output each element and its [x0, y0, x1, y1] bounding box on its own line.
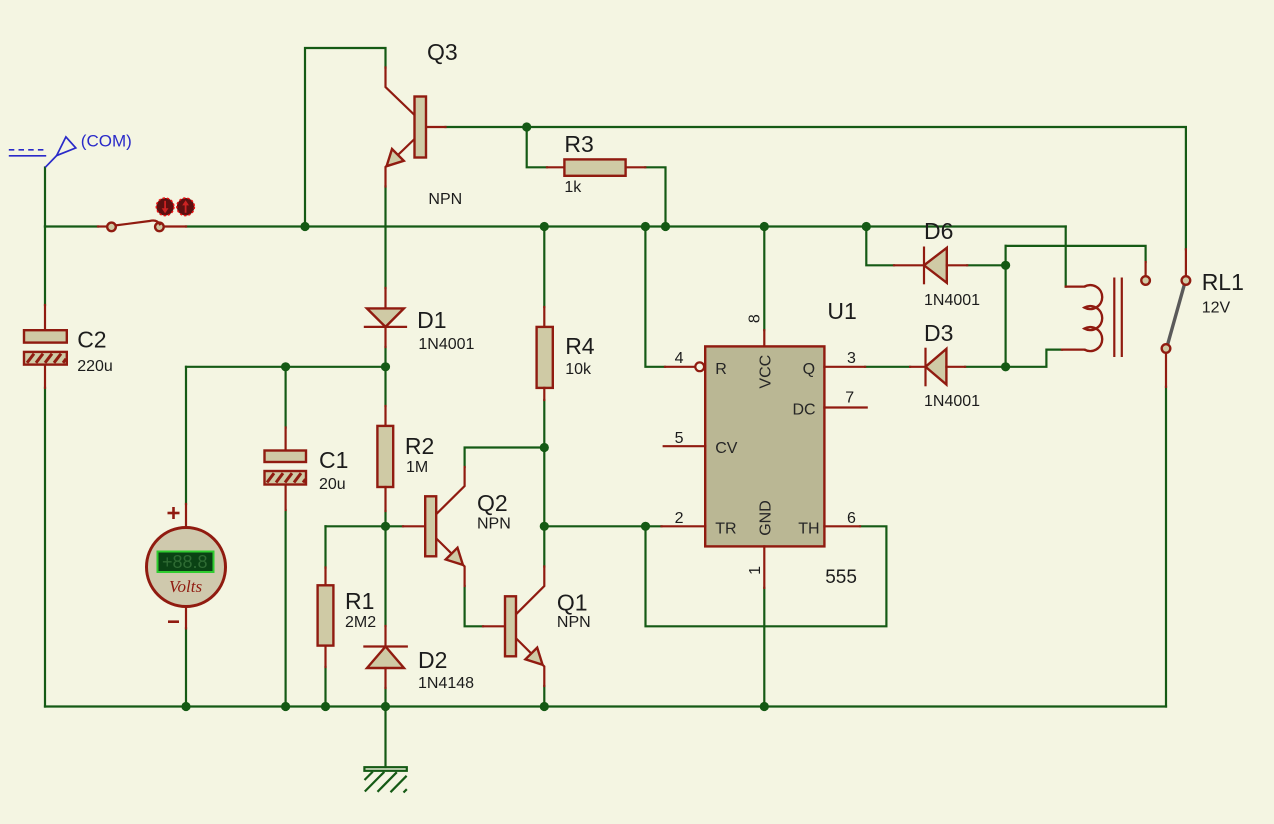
diode D1 lead top [384, 288, 386, 308]
resistor R2 lead top [384, 406, 386, 426]
svg-text:VCC: VCC [757, 355, 774, 389]
relay RL1 coil arcs [1084, 285, 1102, 351]
switch SW terminal right [155, 223, 164, 232]
IC U1 555 body [705, 346, 824, 546]
resistor R3 body [564, 159, 625, 175]
voltmeter body [147, 528, 226, 607]
junction D6 bus [862, 222, 871, 231]
svg-text:R1: R1 [345, 588, 374, 614]
voltmeter lead top [185, 504, 187, 528]
junction C1 bus [281, 702, 290, 711]
relay RL1 contact terminal right [1182, 276, 1191, 285]
resistor R3 lead left [547, 166, 564, 168]
capacitor C2 plate top [24, 330, 67, 342]
svg-text:GND: GND [757, 500, 774, 536]
wire voltmeter bottom [185, 628, 187, 706]
wire ground drop [384, 707, 386, 768]
svg-text:NPN: NPN [557, 614, 591, 631]
resistor R3 lead right [626, 166, 646, 168]
switch SW blade [116, 221, 160, 226]
svg-text:D6: D6 [924, 218, 953, 244]
junction Q3 collector bus [300, 222, 309, 231]
wire bottom bus [45, 705, 1166, 707]
relay RL1 contact terminal left [1141, 276, 1150, 285]
svg-text:Q1: Q1 [557, 590, 588, 616]
svg-text:TH: TH [798, 520, 819, 537]
pin 1 lead [763, 546, 765, 588]
svg-text:NPN: NPN [477, 516, 511, 533]
svg-text:4: 4 [675, 350, 684, 367]
junction voltmeter bus [181, 702, 190, 711]
switch SW terminal left [107, 223, 116, 232]
diode D6 lead left [894, 264, 924, 266]
wire R2 bottom [384, 511, 386, 526]
svg-text:CV: CV [715, 440, 738, 457]
diode D6 cathode bar [923, 248, 925, 284]
svg-text:6: 6 [847, 510, 856, 527]
capacitor C2 lead bottom [44, 365, 46, 388]
capacitor C1 plate top [265, 451, 307, 463]
wire top bus main segment [186, 225, 1066, 227]
svg-text:2M2: 2M2 [345, 614, 376, 631]
svg-text:D2: D2 [418, 647, 447, 673]
diode D2 lead top [384, 626, 386, 647]
wire Q2 collector to R4 column [465, 448, 545, 468]
relay RL1 contact terminal bottom [1162, 344, 1171, 353]
diode D1 triangle [367, 308, 404, 327]
svg-text:7: 7 [845, 390, 854, 407]
pin 5 lead [664, 445, 706, 447]
wire D6 anode branch [866, 227, 894, 266]
wire TR-TH loop [646, 526, 887, 626]
wire Q1 collector column [543, 526, 545, 566]
capacitor C2 plate bottom hatched [24, 352, 67, 365]
wire Q2 emitter to Q1 base [465, 586, 483, 626]
junction Q1 emitter bus [540, 702, 549, 711]
svg-text:R: R [715, 361, 727, 378]
voltmeter minus sign [168, 620, 179, 623]
junction D6 cathode [1001, 261, 1010, 270]
junction pin4 bus [641, 222, 650, 231]
svg-text:(COM): (COM) [81, 131, 132, 150]
voltmeter plus sign [168, 507, 180, 519]
svg-text:1N4001: 1N4001 [418, 336, 474, 353]
wire D2 bottom [384, 688, 386, 707]
transistor Q3 body bar [415, 97, 427, 158]
wire pin1 ground net [763, 588, 765, 707]
junction Q2 collector [540, 443, 549, 452]
resistor R2 lead bottom [384, 487, 386, 511]
svg-text:12V: 12V [1202, 300, 1231, 317]
relay RL1 contact lead common [1144, 262, 1146, 276]
svg-text:NPN: NPN [428, 191, 462, 208]
junction D3 cathode [1001, 362, 1010, 371]
wire voltmeter horizontal [186, 366, 386, 368]
resistor R4 body [537, 327, 553, 388]
diode D6 triangle [924, 248, 947, 283]
wire Q3 emitter to D1 [384, 187, 386, 289]
junction R1 bus [321, 702, 330, 711]
svg-text:220u: 220u [77, 358, 113, 375]
wire R3 right connection [645, 167, 665, 226]
wire pin3 to D3 [865, 366, 910, 368]
pin 6 lead [824, 525, 860, 527]
svg-text:D1: D1 [417, 307, 446, 333]
relay RL1 blade [1168, 285, 1185, 345]
wire Q3 base net to relay [446, 127, 1186, 249]
svg-text:R2: R2 [405, 433, 434, 459]
capacitor C2 lead top [44, 305, 46, 330]
pin 4 lead [665, 366, 695, 368]
svg-text:C2: C2 [77, 327, 106, 353]
junction trigger loop [641, 522, 650, 531]
svg-text:1k: 1k [564, 179, 582, 196]
svg-text:1M: 1M [406, 459, 428, 476]
voltmeter display [158, 552, 214, 573]
svg-text:+88.8: +88.8 [162, 552, 208, 572]
svg-text:DC: DC [793, 402, 816, 419]
relay RL1 coil lead bottom [1062, 349, 1084, 351]
wire R4 top [543, 227, 545, 308]
svg-text:R3: R3 [564, 131, 593, 157]
wire voltmeter top drop [185, 367, 187, 504]
svg-text:Q: Q [803, 361, 815, 378]
capacitor C1 lead bottom [285, 485, 287, 510]
svg-text:Q3: Q3 [427, 39, 458, 65]
wire relay contact riser [1165, 387, 1167, 707]
svg-text:5: 5 [675, 430, 684, 447]
transistor Q1 body bar [505, 596, 516, 656]
wire pin8 vcc net [763, 227, 765, 331]
IC U1 reset bubble [695, 362, 704, 371]
switch actuator button down [156, 198, 174, 216]
svg-text:Q2: Q2 [477, 490, 508, 516]
diode D3 triangle [926, 349, 947, 385]
resistor R1 lead bottom [324, 646, 326, 667]
resistor R2 body [377, 426, 393, 487]
pin 7 lead [824, 406, 866, 408]
diode D3 lead right [946, 366, 965, 368]
diode D1 lead bottom [384, 327, 386, 347]
wire D3 cathode to junction [965, 350, 1062, 367]
capacitor C1 plate bottom hatched [265, 471, 307, 485]
resistor R1 body [318, 585, 334, 645]
voltmeter lead bottom [185, 607, 187, 629]
svg-text:2: 2 [675, 510, 684, 527]
transistor Q3 emitter arrow [387, 149, 404, 166]
wire C1 top [285, 367, 287, 428]
junction D1 bottom [381, 362, 390, 371]
svg-text:U1: U1 [827, 298, 856, 324]
relay RL1 contact lead NO [1185, 249, 1187, 276]
diode D6 lead right [947, 264, 967, 266]
junction pin8 bus [760, 222, 769, 231]
wire R3 left connection [527, 127, 547, 167]
transistor Q1 emitter lead [516, 638, 544, 686]
junction base R3 [522, 122, 531, 131]
relay RL1 core lines [1114, 278, 1122, 358]
resistor R4 lead top [543, 307, 545, 327]
svg-text:555: 555 [825, 567, 857, 588]
switch SW lead left [98, 225, 107, 227]
svg-text:1N4001: 1N4001 [924, 292, 980, 309]
svg-text:R4: R4 [565, 333, 595, 359]
transistor Q1 collector lead [516, 567, 544, 615]
wire trigger row [544, 525, 661, 527]
pin 2 lead [662, 525, 706, 527]
transistor Q3 emitter lead [386, 139, 415, 187]
transistor Q2 collector lead [436, 467, 465, 514]
transistor Q3 base lead [426, 126, 446, 128]
wire Q3 collector net [305, 48, 386, 227]
svg-text:20u: 20u [319, 476, 346, 493]
wire cathode net to relay common [1006, 246, 1146, 262]
junction R2 bottom [381, 522, 390, 531]
svg-text:Volts: Volts [169, 577, 202, 596]
relay RL1 coil lead top [1066, 286, 1085, 288]
svg-text:8: 8 [747, 314, 764, 323]
transistor Q1 base lead [483, 625, 505, 627]
svg-text:1: 1 [747, 566, 764, 575]
transistor Q2 body bar [425, 496, 436, 556]
transistor Q2 base lead [403, 525, 425, 527]
wire top bus left segment [45, 225, 98, 227]
svg-text:C1: C1 [319, 447, 348, 473]
wire D1 cathode down [384, 347, 386, 367]
svg-text:10k: 10k [565, 361, 592, 378]
wire R1 bottom [324, 667, 326, 707]
wire cathode junction vertical [1004, 246, 1006, 367]
ground [364, 767, 406, 792]
wire relay coil top [1065, 227, 1067, 287]
junction R3 bus [661, 222, 670, 231]
wire R1 top drop [324, 526, 326, 567]
wire R4 bottom column [543, 400, 545, 526]
wire R2 top [384, 367, 386, 406]
svg-text:TR: TR [715, 520, 736, 537]
svg-text:3: 3 [847, 350, 856, 367]
diode D3 lead left [910, 366, 925, 368]
wire D2 top [384, 526, 386, 626]
junction ground bus [381, 702, 390, 711]
junction pin1 bus [760, 702, 769, 711]
wire Q1 emitter to bus [543, 686, 545, 707]
relay RL1 contact lead bottom [1165, 353, 1167, 387]
junction C1 top [281, 362, 290, 371]
wire C2 top branch [44, 227, 46, 306]
wire D6 cathode to junction [967, 264, 1005, 266]
transistor Q3 collector lead [386, 68, 415, 116]
wire Q2 base row [326, 525, 404, 527]
diode D2 cathode bar [364, 645, 406, 647]
diode D2 lead bottom [384, 668, 386, 688]
resistor R1 lead top [324, 568, 326, 586]
wire C2 bottom riser [44, 388, 46, 707]
switch actuator button up [177, 198, 195, 216]
junction R4 bus [540, 222, 549, 231]
transistor Q2 emitter arrow [446, 548, 463, 565]
wire pin4 reset net [645, 227, 665, 367]
wire C1 bottom [285, 510, 287, 707]
capacitor C1 lead top [285, 428, 287, 451]
diode D2 triangle [367, 647, 404, 669]
transistor Q1 emitter arrow [525, 648, 542, 665]
resistor R4 lead bottom [543, 388, 545, 400]
svg-text:D3: D3 [924, 320, 953, 346]
junction R4 trigger [540, 522, 549, 531]
pin 3 lead [824, 366, 865, 368]
diode D3 cathode bar [924, 349, 926, 385]
diode D1 cathode bar [365, 326, 406, 328]
terminal (COM) [9, 137, 76, 167]
switch SW lead right [164, 225, 186, 227]
svg-text:1N4001: 1N4001 [924, 393, 980, 410]
svg-text:RL1: RL1 [1202, 269, 1244, 295]
transistor Q2 emitter lead [436, 538, 465, 586]
svg-text:1N4148: 1N4148 [418, 675, 474, 692]
wire terminal drop to bus [44, 168, 46, 227]
pin 8 lead [763, 330, 765, 346]
